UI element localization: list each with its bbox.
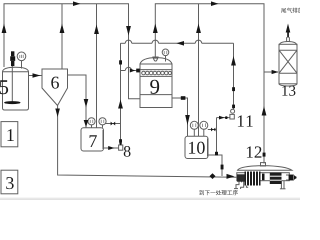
svg-text:9: 9 <box>149 75 160 99</box>
svg-text:尾气排放: 尾气排放 <box>281 6 300 14</box>
svg-text:5: 5 <box>0 75 9 99</box>
svg-text:1: 1 <box>6 125 15 145</box>
svg-text:13: 13 <box>281 84 296 100</box>
svg-text:6: 6 <box>50 73 59 93</box>
svg-text:11: 11 <box>236 112 254 131</box>
svg-text:7: 7 <box>88 131 97 151</box>
svg-text:3: 3 <box>5 173 14 193</box>
svg-text:到下一处理工序: 到下一处理工序 <box>199 189 239 197</box>
svg-text:8: 8 <box>123 144 131 161</box>
svg-text:12: 12 <box>245 143 262 162</box>
svg-text:10: 10 <box>187 138 205 158</box>
